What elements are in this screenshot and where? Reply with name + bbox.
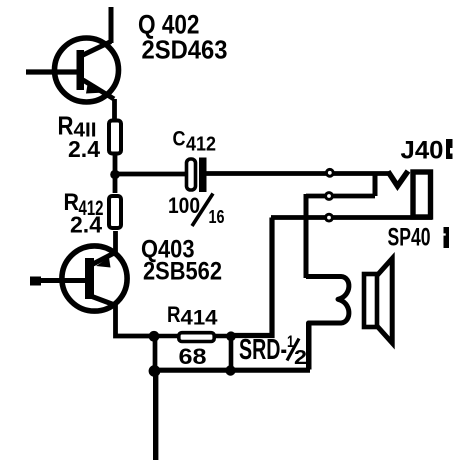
resistor R412 body <box>109 196 121 228</box>
jack J401 body <box>413 172 431 217</box>
transistor Q2 Q402 circle <box>55 38 119 102</box>
wire ground tail <box>153 371 158 460</box>
svg-text:100: 100 <box>168 193 200 218</box>
svg-text:2SB562: 2SB562 <box>143 258 222 286</box>
wire R414 right <box>214 334 231 339</box>
wire R412 to Q403 <box>113 231 118 254</box>
wire node to C412 <box>115 172 186 177</box>
svg-text:2.4: 2.4 <box>70 212 102 238</box>
capacitor C412 right plate <box>199 158 207 193</box>
wire R411 to node <box>113 155 118 176</box>
svg-text:R: R <box>167 302 181 327</box>
transistor Q403 emitter arrow <box>96 258 111 268</box>
transistor Q402 collector slant <box>83 42 111 56</box>
svg-text:J40: J40 <box>401 137 444 165</box>
svg-text:SRD-: SRD- <box>239 334 287 366</box>
wire middle contact down to speaker coil <box>304 194 309 278</box>
svg-text:2SD463: 2SD463 <box>142 34 228 64</box>
transistor Q403 circle <box>62 246 127 311</box>
jack J401 tip spring contact V <box>388 171 408 186</box>
wire Q402 emitter to R411 <box>112 99 117 122</box>
node junction left top <box>149 331 160 342</box>
node junction right top <box>226 331 236 341</box>
node junction R411/R412/C412 <box>110 170 120 180</box>
node junction left bottom <box>149 365 161 377</box>
svg-text:16: 16 <box>209 207 225 227</box>
wire to R414 left <box>154 334 179 339</box>
transistor Q403 base bar <box>85 258 94 299</box>
wire Q402 base <box>26 69 78 74</box>
svg-text:2.4: 2.4 <box>68 136 100 162</box>
wire SRD left vertical <box>229 336 234 370</box>
jack contact circle 1 (tip) <box>326 169 333 176</box>
value slash <box>192 194 213 227</box>
capacitor C412 left plate <box>187 159 196 190</box>
svg-text:2: 2 <box>294 347 307 369</box>
svg-text:68: 68 <box>179 344 207 369</box>
transistor Q402 base bar <box>77 50 85 90</box>
node junction right bottom <box>225 365 235 375</box>
svg-text:SP40: SP40 <box>388 224 431 252</box>
wire jack middle contact horizontal <box>306 194 375 199</box>
speaker coil bracket <box>306 277 349 370</box>
speaker SP401 cone <box>377 259 392 344</box>
transistor Q402 emitter arrow <box>86 82 105 94</box>
speaker SP401 driver <box>364 274 377 327</box>
wire Q402 collector top <box>109 7 114 43</box>
wire C412 to jack tip contact <box>206 171 389 176</box>
wire speaker return vertical <box>307 324 312 370</box>
wire jack middle riser <box>373 174 378 197</box>
wire Q403 collector run <box>116 304 155 336</box>
transistor Q403 collector slant <box>92 297 116 306</box>
wire Q403 base <box>31 278 87 283</box>
wire Q403 base stub blob <box>30 277 41 286</box>
resistor R414 body <box>179 333 214 342</box>
jack contact circle 2 (ring) <box>326 193 333 200</box>
transistor Q402 emitter slant <box>83 80 114 99</box>
wire bottom bus <box>154 368 310 373</box>
transistor Q403 emitter slant <box>93 252 116 264</box>
wire sleeve drop to SRD <box>231 218 272 336</box>
jack contact circle 3 (sleeve) <box>326 214 333 221</box>
wire left vertical between junctions <box>153 336 158 371</box>
wire jack sleeve contact row <box>271 215 432 220</box>
svg-text:C: C <box>173 128 186 151</box>
resistor R1 R411 body <box>109 121 121 154</box>
wire node to R412 <box>113 174 118 193</box>
svg-text:414: 414 <box>181 307 218 330</box>
svg-text:412: 412 <box>186 134 216 156</box>
